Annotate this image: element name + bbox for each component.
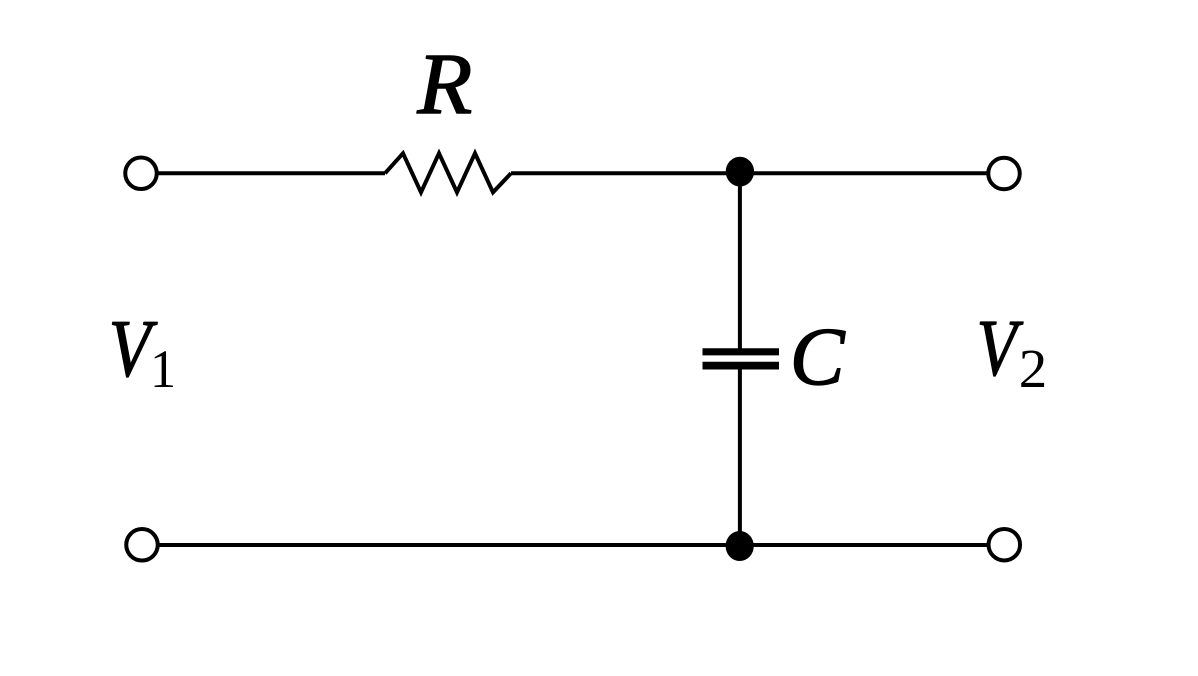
svg-text:1: 1 <box>150 341 176 400</box>
svg-text:C: C <box>790 311 846 402</box>
svg-text:V: V <box>977 304 1024 393</box>
svg-text:2: 2 <box>1019 339 1047 400</box>
svg-text:R: R <box>416 37 472 133</box>
